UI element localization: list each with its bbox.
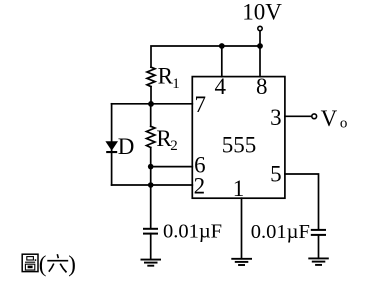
svg-text:555: 555 <box>222 132 257 157</box>
svg-text:7: 7 <box>195 92 207 117</box>
svg-text:0.01µF: 0.01µF <box>163 220 222 242</box>
svg-text:V: V <box>321 106 338 131</box>
svg-text:2: 2 <box>194 173 206 198</box>
svg-text:1: 1 <box>172 76 180 92</box>
svg-text:R: R <box>158 64 174 89</box>
svg-text:4: 4 <box>214 74 226 99</box>
svg-text:(: ( <box>39 251 47 276</box>
svg-text:3: 3 <box>270 105 282 130</box>
svg-text:10V: 10V <box>242 0 282 25</box>
svg-text:D: D <box>118 134 135 159</box>
svg-text:o: o <box>340 116 348 132</box>
svg-text:0.01µF: 0.01µF <box>251 221 310 243</box>
svg-text:1: 1 <box>233 176 245 201</box>
svg-text:2: 2 <box>170 138 178 154</box>
svg-text:): ) <box>68 251 76 276</box>
svg-text:5: 5 <box>270 161 282 186</box>
svg-text:8: 8 <box>256 74 268 99</box>
